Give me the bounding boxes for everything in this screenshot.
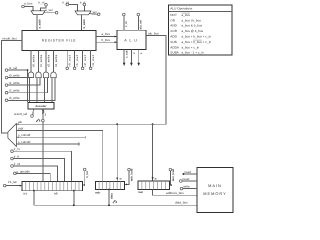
wire b_bus register file to ALU xyxy=(96,41,116,43)
pin r0 write-enable (register file) xyxy=(30,50,32,72)
svg-text:r3_write: r3_write xyxy=(54,54,58,67)
node ir_rs terminal (A-mux input 2) xyxy=(45,4,48,7)
wire ir_rt tap to IR xyxy=(13,159,64,182)
svg-text:ir_rt: ir_rt xyxy=(14,155,19,159)
svg-text:ir1_lat: ir1_lat xyxy=(8,180,17,184)
pin v flag (ALU status) xyxy=(130,49,132,63)
svg-text:r1_out: r1_out xyxy=(75,55,79,67)
register file U1 xyxy=(22,31,96,51)
svg-text:ALU: ALU xyxy=(124,38,139,42)
svg-text:ir_rt: ir_rt xyxy=(80,0,85,4)
node a_sel terminal xyxy=(55,11,58,14)
svg-text:s_const4: s_const4 xyxy=(18,133,31,137)
pin r2 write-enable (register file) xyxy=(45,50,47,72)
svg-text:s_opcode: s_opcode xyxy=(17,169,31,173)
node reset terminal xyxy=(180,180,183,183)
wire a_bus register file to ALU xyxy=(96,36,116,38)
svg-text:SUB: SUB xyxy=(170,40,176,44)
svg-text:ir1: ir1 xyxy=(24,192,28,196)
svg-text:OR: OR xyxy=(170,18,175,22)
node ir_rd terminal (B-mux input 1) xyxy=(66,3,69,6)
mux B (register file B-address select) xyxy=(75,11,91,15)
pin r0_out with terminal xyxy=(66,50,68,67)
svg-text:alu_bus: alu_bus xyxy=(148,31,159,35)
register IR (ir1/ir0) xyxy=(22,182,83,191)
wire data_bus to memory xyxy=(34,204,197,206)
svg-text:read: read xyxy=(185,170,191,174)
junction to MDR input xyxy=(116,123,118,125)
svg-text:ir_rs: ir_rs xyxy=(39,1,45,5)
wire G2 output to decoder xyxy=(44,78,46,103)
wire r1_write to gate G1 xyxy=(8,78,40,85)
wire mdr_load to MDR xyxy=(126,171,129,185)
AND gate G3 xyxy=(51,72,56,78)
svg-text:alu: alu xyxy=(18,120,22,124)
node c_in terminal xyxy=(123,13,126,16)
wire result_sel to decoder xyxy=(32,109,35,115)
bus width 8 marker xyxy=(36,119,38,122)
svg-text:mar_load: mar_load xyxy=(171,169,175,182)
svg-text:a_bus | b_bus: a_bus | b_bus xyxy=(182,18,202,22)
svg-text:result_bus: result_bus xyxy=(3,36,18,40)
svg-text:a_bus + b_bus + c_in: a_bus + b_bus + c_in xyxy=(182,40,212,44)
register MDR xyxy=(96,181,125,189)
node read input xyxy=(183,173,185,175)
wire r3_write to gate G3 xyxy=(8,78,55,101)
node r2_write terminal xyxy=(5,91,8,94)
ALU operations table xyxy=(169,5,233,55)
svg-text:r2_write: r2_write xyxy=(46,54,50,67)
wire mar_load to MAR xyxy=(169,171,171,185)
pin r2_out with terminal xyxy=(82,50,84,67)
junction to MAR input xyxy=(152,123,154,125)
pin MAR load marker xyxy=(152,177,154,179)
svg-text:a_bus @ b_bus: a_bus @ b_bus xyxy=(182,29,204,33)
wire G0 output to decoder xyxy=(29,78,31,103)
svg-text:reset: reset xyxy=(183,177,190,181)
svg-text:a_bus: a_bus xyxy=(182,13,191,17)
svg-text:a_bus: a_bus xyxy=(102,32,111,36)
svg-text:data_bus: data_bus xyxy=(175,201,188,205)
svg-text:s_const0: s_const0 xyxy=(18,140,31,144)
svg-text:r0_write: r0_write xyxy=(9,74,20,78)
svg-text:alu_sel: alu_sel xyxy=(139,20,143,30)
wire G3 output to decoder xyxy=(51,78,53,103)
wire a_sel to A-mux xyxy=(43,12,55,14)
wire IR output to data bus (right) xyxy=(73,190,75,192)
wire read to memory xyxy=(184,173,198,175)
svg-text:b_bus: b_bus xyxy=(102,38,111,42)
svg-text:a_bus + b_bus + c_in: a_bus + b_bus + c_in xyxy=(182,35,212,39)
svg-text:ir0: ir0 xyxy=(54,192,58,196)
wire G1 output to decoder xyxy=(36,78,38,103)
svg-text:r3_out: r3_out xyxy=(91,55,95,67)
svg-text:ir_rd: ir_rd xyxy=(63,0,69,4)
wire alu_bus horizontal run xyxy=(16,36,166,125)
node mar_load terminal xyxy=(169,168,172,171)
wire mdr to result mux xyxy=(16,130,102,181)
pin r3_out with terminal xyxy=(90,50,92,67)
svg-text:r3_write: r3_write xyxy=(9,96,20,100)
wire ir1_lat to IR xyxy=(6,185,21,187)
node s_opcode terminal (IR field tap) xyxy=(14,172,17,175)
svg-text:r2_out: r2_out xyxy=(83,55,87,67)
wire s_const4 xyxy=(16,136,85,138)
wire ir_rs to A-mux xyxy=(40,6,46,11)
pin r1_out with terminal xyxy=(74,50,76,67)
ALU U3 xyxy=(117,30,146,49)
svg-text:ir_rd: ir_rd xyxy=(14,162,20,166)
wire s_opcode tap to IR xyxy=(16,173,50,181)
node r0_write terminal xyxy=(5,76,8,79)
wire IR output to data bus (left) xyxy=(33,190,35,192)
wire b_sel to B-mux xyxy=(89,13,97,16)
pin r1 write-enable (register file) xyxy=(38,50,40,72)
decoder U2 xyxy=(28,102,54,109)
node r1_sel terminal xyxy=(5,69,8,72)
svg-text:ALU Operations: ALU Operations xyxy=(170,7,192,11)
node b_sel terminal xyxy=(97,13,100,16)
node ir_rs terminal (IR field tap) xyxy=(11,150,14,153)
svg-text:address_bus: address_bus xyxy=(166,191,184,195)
svg-text:a_bus + c_in: a_bus + c_in xyxy=(182,45,200,49)
svg-text:write: write xyxy=(183,185,190,189)
svg-text:r0_write: r0_write xyxy=(31,54,35,67)
wire result_bus xyxy=(2,40,22,133)
node mdr_load terminal xyxy=(128,168,131,171)
svg-text:MEMORY: MEMORY xyxy=(203,191,226,196)
wire c_in to ALU xyxy=(123,16,125,31)
node ir_rt terminal (B-mux input 2) xyxy=(83,3,86,6)
svg-text:a_bus & b_bus: a_bus & b_bus xyxy=(182,24,203,28)
wire ir0_lat to IR xyxy=(84,171,85,185)
mux RESULT (4-input result select) xyxy=(8,124,17,147)
node ir_rd terminal (IR field tap) xyxy=(11,165,14,168)
main memory U4 xyxy=(197,168,233,213)
register MAR xyxy=(138,181,169,190)
node alu_sel terminal xyxy=(137,13,140,16)
wire r2_write to gate G2 xyxy=(8,78,48,93)
svg-text:mdr: mdr xyxy=(18,126,23,130)
svg-text:decoder: decoder xyxy=(36,104,48,108)
AND gate G1 xyxy=(36,72,41,78)
AND gate G2 xyxy=(43,72,48,78)
wire ir_rd to B-mux xyxy=(69,5,78,12)
svg-text:a_sel: a_sel xyxy=(45,8,53,12)
node r3_write terminal xyxy=(5,99,8,102)
svg-text:data: data xyxy=(110,193,114,199)
node ir_rd terminal (A-mux input 1) xyxy=(22,5,25,8)
AND gate G0 (r0 write enable) xyxy=(28,72,33,78)
svg-text:a_bus: a_bus xyxy=(24,1,33,5)
svg-text:MAIN: MAIN xyxy=(208,183,222,188)
svg-text:r1_sel: r1_sel xyxy=(9,66,18,70)
svg-text:r1_write: r1_write xyxy=(9,81,20,85)
wire ir_rt to B-mux xyxy=(83,6,85,11)
svg-text:SUBA: SUBA xyxy=(170,51,179,55)
svg-text:a_bus - 1 + c_in: a_bus - 1 + c_in xyxy=(182,51,204,55)
svg-text:mdr: mdr xyxy=(95,190,101,194)
svg-text:mar: mar xyxy=(138,190,144,194)
pin decoder select input (2-bit) xyxy=(42,109,44,182)
node write terminal xyxy=(180,187,183,190)
pin c_out (ALU status) xyxy=(123,49,125,63)
svg-text:result_sel: result_sel xyxy=(14,112,28,116)
wire ir_rd tap to IR xyxy=(13,166,57,182)
wire r0_write to gate G0 xyxy=(8,77,33,79)
svg-text:b_addr: b_addr xyxy=(82,18,86,28)
svg-text:r1_write: r1_write xyxy=(39,54,43,67)
wire r1_sel to decoder xyxy=(8,70,28,102)
pin r3 write-enable (register file) xyxy=(53,50,55,72)
svg-text:mdr_load: mdr_load xyxy=(130,168,134,181)
wire ir_rd to A-mux xyxy=(24,7,33,11)
wire B-mux output to register file xyxy=(81,15,83,31)
node ir_rt terminal (IR field tap) xyxy=(11,157,14,160)
svg-text:a_addr: a_addr xyxy=(37,18,41,28)
svg-text:REGISTER FILE: REGISTER FILE xyxy=(42,39,77,43)
mux A (register file A-address select) xyxy=(31,11,45,15)
pin z flag (ALU status) xyxy=(138,49,140,63)
wire result mux output xyxy=(2,132,8,134)
wire reset to memory xyxy=(182,180,197,182)
pin MDR load marker xyxy=(116,178,118,180)
svg-text:ir_rs: ir_rs xyxy=(14,147,20,151)
svg-text:AND: AND xyxy=(170,24,177,28)
svg-text:r0_out: r0_out xyxy=(68,55,72,67)
node result_sel terminal xyxy=(31,115,34,118)
svg-text:c_in: c_in xyxy=(124,21,128,27)
node ir0_lat terminal xyxy=(83,168,86,171)
svg-text:ir_lat: ir_lat xyxy=(85,171,89,178)
wire A-mux output to register file xyxy=(36,15,38,31)
wire ir_rs tap to IR xyxy=(13,151,71,181)
wire s_const0 xyxy=(16,143,79,145)
wire MDR output to data bus xyxy=(108,189,110,191)
wire write to memory xyxy=(183,188,197,190)
wire alu_sel to ALU xyxy=(137,16,139,31)
svg-text:ADDA: ADDA xyxy=(170,45,180,49)
svg-text:c_out: c_out xyxy=(125,50,129,58)
svg-text:ADD: ADD xyxy=(170,35,177,39)
svg-text:NOT: NOT xyxy=(170,13,177,17)
node ir1_lat terminal xyxy=(3,184,6,187)
svg-text:XOR: XOR xyxy=(170,29,177,33)
svg-text:r2_write: r2_write xyxy=(9,89,20,93)
wire MAR output to address bus xyxy=(153,189,197,195)
node r1_write terminal xyxy=(5,84,8,87)
